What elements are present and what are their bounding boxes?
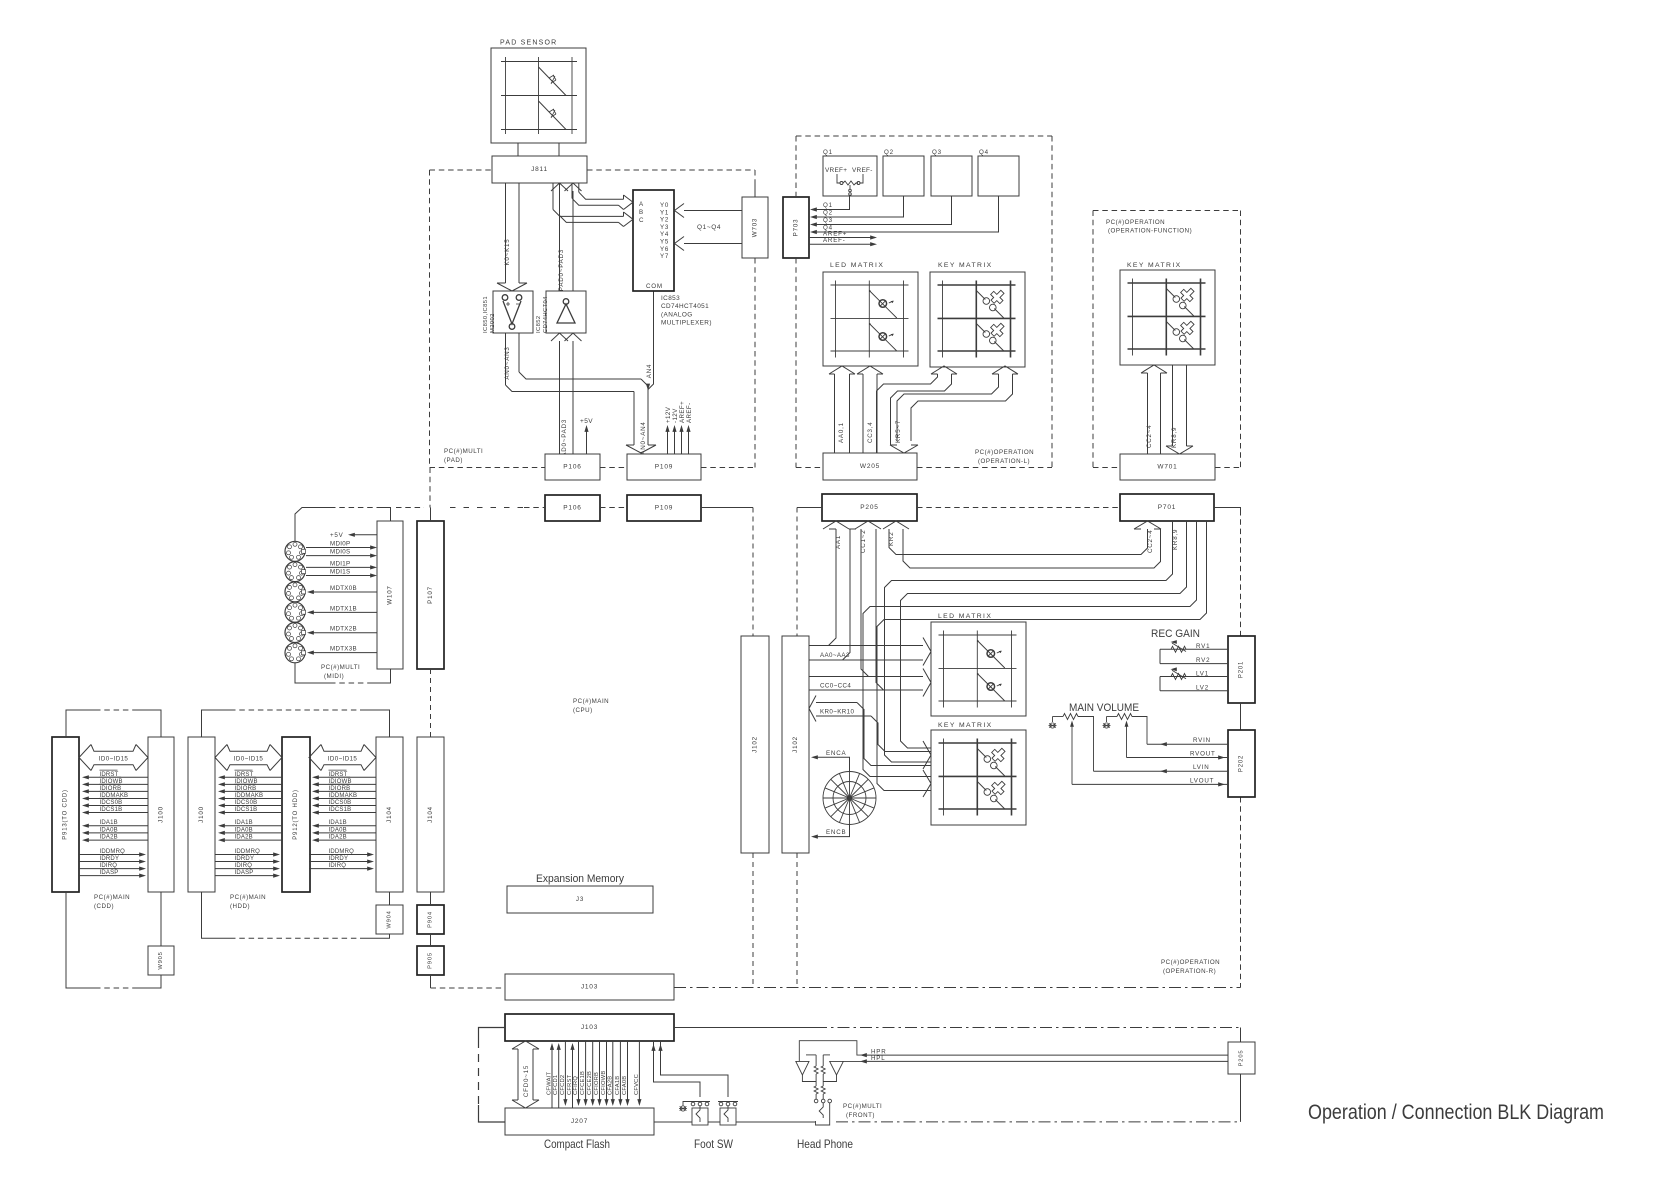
connector W205 (823, 453, 917, 480)
connector W905 (148, 946, 174, 975)
bus J811 to IC853 lower (553, 183, 633, 227)
wire IDRST CDD (85, 776, 148, 778)
svg-text:IDA1B: IDA1B (100, 820, 118, 826)
svg-text:IDDMRQ: IDDMRQ (235, 849, 261, 855)
connector P205 front (1228, 1042, 1255, 1074)
foot switch 1 (690, 1102, 710, 1126)
svg-text:Foot SW: Foot SW (694, 1137, 734, 1151)
bus AN0~AN3 (IC850 down, elbow right) (506, 333, 642, 392)
pot LV zigzag + wiper (1171, 670, 1186, 679)
bus K0~K15 (497, 183, 527, 291)
svg-text:MDTX0B: MDTX0B (330, 585, 357, 592)
svg-text:CC2~4: CC2~4 (1146, 425, 1153, 448)
main dashed line y=507 P107 to P106 row2 (450, 507, 524, 509)
pot LV bracket (1160, 677, 1228, 691)
svg-text:P106: P106 (563, 505, 581, 512)
connector W701 (1120, 454, 1215, 480)
svg-text:PAD0~PAD3: PAD0~PAD3 (558, 249, 565, 291)
connector J104 a (376, 737, 403, 892)
svg-text:REC GAIN: REC GAIN (1151, 628, 1200, 640)
connector P703 (783, 197, 809, 258)
region border PAD bottom edge (430, 467, 546, 469)
svg-text:P913(TO CDD): P913(TO CDD) (63, 789, 69, 840)
wire IDDMRQ HDD-right (309, 854, 370, 856)
svg-text:A: A (639, 201, 644, 208)
svg-text:VREF+: VREF+ (825, 167, 847, 174)
region border OPERATION-L left upper (795, 136, 797, 197)
svg-text:AA0,1: AA0,1 (838, 422, 845, 443)
svg-text:MDI0P: MDI0P (330, 541, 350, 548)
svg-text:+12V: +12V (665, 406, 672, 423)
bus Q1~Q4 IC853 Y side to W703 (675, 204, 743, 251)
svg-text:W107: W107 (387, 585, 394, 604)
svg-text:CFCD2: CFCD2 (560, 1075, 566, 1095)
bus ID0~ID15 HDD-right (309, 745, 376, 771)
svg-text:KR8,9: KR8,9 (1172, 529, 1179, 550)
svg-text:W701: W701 (1157, 464, 1177, 471)
main dashed line y=507 between row2 boxes (600, 507, 627, 509)
wire CFA1B (619, 1041, 621, 1104)
svg-text:AREF+: AREF+ (679, 401, 686, 423)
connector P106 row2 (545, 495, 600, 521)
svg-text:CC1~2: CC1~2 (860, 530, 867, 553)
region border PC(#)MULTI(PAD) top-left dash (430, 169, 493, 171)
arrow CC2~4 into P701 bottom (1134, 521, 1161, 529)
svg-text:IDIRQ: IDIRQ (100, 863, 118, 869)
wire pad-sensor stem right (558, 143, 560, 156)
wire IDRDY CDD (79, 861, 142, 863)
wire IDA0B HDD-left (221, 832, 282, 834)
main dashed line y=507 left of P106 row2 (524, 507, 545, 509)
MIDI DIN connector 5 (285, 623, 306, 643)
svg-text:PC(#)MAIN: PC(#)MAIN (573, 698, 609, 705)
wire AREF- (809, 243, 874, 245)
connector J100 a (148, 737, 174, 892)
svg-text:(OPERATION-L): (OPERATION-L) (978, 458, 1030, 465)
bracket bottom HDD (202, 892, 390, 938)
svg-text:IDA0B: IDA0B (100, 827, 118, 833)
wire MDI1P (306, 566, 373, 568)
KEY matrix function box (1120, 270, 1215, 365)
connector P109 row2 (627, 495, 701, 521)
wire J104b to P904 (430, 892, 432, 905)
region border OPERATION-FUNCTION bottom left (1093, 467, 1120, 469)
dashed P905 to J103 (431, 987, 506, 989)
svg-text:AREF-: AREF- (686, 402, 693, 423)
MIDI DIN connector 6 (285, 643, 306, 663)
svg-text:MDI1P: MDI1P (330, 560, 350, 567)
connector W904 (376, 905, 403, 934)
wire HPR (862, 1054, 1228, 1056)
svg-text:RVIN: RVIN (1193, 737, 1211, 744)
svg-text:LVIN: LVIN (1193, 764, 1210, 771)
svg-text:Compact Flash: Compact Flash (544, 1137, 610, 1151)
svg-text:LED MATRIX: LED MATRIX (938, 613, 992, 620)
connector P205 (822, 494, 917, 521)
svg-text:CC2~4: CC2~4 (1147, 530, 1154, 553)
svg-text:P109: P109 (655, 464, 673, 471)
wire IDA1B HDD-left (221, 825, 282, 827)
svg-text:CFWAIT: CFWAIT (547, 1072, 553, 1095)
bus AA1 from P205 down (823, 521, 856, 660)
svg-text:Y6: Y6 (660, 246, 669, 253)
bus PAD0~PAD3 upper (J811 to IC852) (551, 183, 582, 291)
wire IDCS1B HDD-right (315, 812, 376, 814)
wire IDIOWB HDD-left (221, 783, 282, 785)
svg-text:CFA2B: CFA2B (607, 1076, 613, 1095)
bus KR5~7 KEY matrix to W205 (Z elbow a) (877, 366, 958, 453)
wire IDDMRQ CDD (79, 854, 142, 856)
wire IDIORB CDD (85, 790, 148, 792)
connector P701 (1120, 494, 1214, 521)
svg-text:KR2: KR2 (888, 532, 895, 546)
dashed below J102a (752, 853, 754, 988)
connector W703 (742, 197, 768, 258)
svg-text:IDA0B: IDA0B (235, 827, 253, 833)
svg-text:CC0~CC4: CC0~CC4 (820, 683, 851, 690)
svg-text:M2002: M2002 (490, 313, 496, 333)
svg-text:W905: W905 (158, 951, 164, 969)
svg-text:P109: P109 (655, 505, 673, 512)
bus KR0~KR10 into J102 (809, 696, 931, 766)
svg-text:PC(#)MULTI: PC(#)MULTI (321, 664, 360, 671)
rail dash-dot lower FRONT (836, 1121, 1241, 1123)
wire CFIRQ (578, 1041, 580, 1104)
svg-text:J104: J104 (427, 806, 434, 823)
svg-text:W904: W904 (387, 910, 393, 928)
bus KR5~7 KEY matrix to W205 (Z elbow b) (897, 366, 1018, 441)
wire IDIRQ HDD-right (309, 868, 370, 870)
svg-text:IDA2B: IDA2B (329, 835, 347, 841)
dashed P205 to P701 (917, 507, 1120, 509)
MIDI DIN connector 3 (285, 582, 306, 602)
bus KR8,9 KEY matrix func to W701 (1166, 365, 1193, 454)
connector P905 (417, 946, 444, 975)
svg-text:RVOUT: RVOUT (1190, 751, 1216, 758)
svg-text:J104: J104 (386, 806, 393, 823)
svg-text:W703: W703 (752, 218, 759, 237)
pot RV zigzag + wiper (1171, 643, 1186, 652)
wire IDIORB HDD-right (315, 790, 376, 792)
svg-text:Q3: Q3 (823, 217, 833, 224)
svg-text:Y4: Y4 (660, 231, 669, 238)
svg-text:P701: P701 (1158, 504, 1176, 511)
svg-text:Y5: Y5 (660, 239, 669, 246)
svg-text:PC(#)MAIN: PC(#)MAIN (94, 894, 130, 901)
svg-text:CFCE2B: CFCE2B (587, 1071, 593, 1095)
svg-text:IDA0B: IDA0B (329, 827, 347, 833)
connector J207 (505, 1108, 654, 1135)
svg-text:J100: J100 (198, 806, 205, 823)
wire MDTX3B (310, 652, 377, 654)
svg-text:(OPERATION-R): (OPERATION-R) (1163, 968, 1216, 975)
wire IDA2B HDD-left (221, 839, 282, 841)
svg-text:MDTX2B: MDTX2B (330, 626, 357, 633)
svg-text:IDCS1B: IDCS1B (329, 807, 352, 813)
wire Q2 to P703 (814, 196, 904, 217)
wire IDCS0B HDD-left (221, 805, 282, 807)
svg-text:IDIRQ: IDIRQ (235, 863, 253, 869)
svg-text:J103: J103 (581, 1024, 598, 1031)
connector P912 (282, 737, 310, 892)
region border OPERATION-FUNCTION top (1093, 210, 1241, 212)
svg-text:AN0~AN3: AN0~AN3 (504, 346, 511, 379)
wire Q4 to P703 (814, 196, 999, 232)
LED symbols (977, 640, 1005, 668)
svg-text:MDI1S: MDI1S (330, 569, 350, 576)
svg-text:PC(#)MULTI: PC(#)MULTI (444, 448, 483, 455)
svg-text:-12V: -12V (672, 408, 679, 423)
svg-text:KEY MATRIX: KEY MATRIX (938, 262, 993, 269)
wire IDIRQ HDD-left (215, 868, 276, 870)
svg-text:PC(#)OPERATION: PC(#)OPERATION (1106, 219, 1165, 226)
svg-text:Q2: Q2 (884, 149, 894, 156)
region border OPERATION-FUNCTION bottom right (1215, 467, 1241, 469)
main dashed line y=507 P109 to P205 (701, 507, 753, 509)
bus J811 to IC853 upper (572, 183, 633, 210)
svg-text:P912(TO HDD): P912(TO HDD) (293, 789, 299, 840)
wire HPL (862, 1060, 1228, 1062)
svg-text:CFA1B: CFA1B (615, 1076, 621, 1095)
connector J104 b (417, 737, 444, 892)
wire MDTX0B (310, 591, 377, 593)
wire IDIOWB CDD (85, 783, 148, 785)
connector J811 (492, 156, 587, 183)
svg-text:LED MATRIX: LED MATRIX (830, 262, 884, 269)
wire CFVCC (638, 1041, 640, 1104)
main dashed line y=507 to P205 (797, 507, 822, 509)
wire CFA0B (627, 1041, 629, 1104)
region border OPERATION-L top (796, 135, 1052, 137)
svg-text:IDA2B: IDA2B (100, 835, 118, 841)
wire CFRST (572, 1046, 574, 1108)
svg-text:P202: P202 (1239, 755, 1245, 772)
svg-text:P205: P205 (1239, 1050, 1245, 1067)
wire IDCS1B CDD (85, 812, 148, 814)
wire MDTX2B (310, 632, 377, 634)
IC IC850/IC851 M2002 (493, 291, 533, 333)
svg-text:KEY MATRIX: KEY MATRIX (1127, 262, 1182, 269)
region border OPERATION-L right (1051, 136, 1053, 468)
wire IDDMAKB CDD (85, 797, 148, 799)
svg-text:J207: J207 (571, 1118, 588, 1125)
svg-text:MAIN VOLUME: MAIN VOLUME (1069, 702, 1139, 714)
rail J103b right solid (674, 1027, 815, 1029)
IC852 inverter symbol (557, 299, 575, 323)
wire CFCD1 (558, 1046, 560, 1108)
key switch symbols (976, 287, 1007, 318)
wire LVOUT (1072, 783, 1228, 785)
connector P913 (52, 737, 79, 892)
wire IDA1B CDD (85, 825, 148, 827)
bus PAD0~PAD3 lower (IC852 to P106) (551, 333, 582, 454)
svg-text:CD74HCT4051: CD74HCT4051 (661, 303, 709, 310)
wire P701 right corner to P201 (1214, 508, 1241, 511)
wire MDI0P (306, 547, 373, 549)
bus ID0~ID15 CDD (79, 745, 148, 771)
svg-text:LV1: LV1 (1196, 671, 1209, 678)
LED matrix 1 box (823, 272, 918, 366)
svg-text:IDA2B: IDA2B (235, 835, 253, 841)
svg-text:KR8,9: KR8,9 (1171, 427, 1178, 448)
LED matrix 2 box (931, 622, 1026, 716)
bus band2 KR8,9 left line (885, 521, 1187, 762)
arrow into KEY matrix 2 upper (923, 741, 931, 769)
svg-text:P703: P703 (793, 219, 800, 237)
wire IDRST HDD-left (221, 776, 282, 778)
region border PAD bottom between P106/P109 (600, 467, 627, 469)
wire IDDMAKB HDD-left (221, 797, 282, 799)
bus CC1~2 from P205 down (855, 521, 884, 690)
key switch symbols (977, 745, 1008, 776)
svg-text:IDCS1B: IDCS1B (235, 807, 258, 813)
svg-text:Operation / Connection BLK Dia: Operation / Connection BLK Diagram (1308, 1101, 1604, 1124)
svg-text:IDRDY: IDRDY (100, 856, 120, 862)
bus AA0~AA3 J102 to LED matrix 2 (809, 638, 931, 666)
wire IDCS1B HDD-left (221, 812, 282, 814)
bus KR2 from P205 down elbow right (883, 521, 1161, 568)
svg-text:(MIDI): (MIDI) (324, 673, 344, 680)
svg-text:(ANALOG: (ANALOG (661, 311, 693, 318)
svg-text:CFVCC: CFVCC (634, 1074, 640, 1095)
IC IC853 CD74HCT4051 analog multiplexer (633, 190, 674, 291)
wire RVOUT (1127, 757, 1229, 759)
connector P904 (417, 905, 444, 934)
svg-text:CD74HCT04: CD74HCT04 (543, 296, 549, 333)
wire MDTX1B (310, 611, 377, 613)
IC IC852 CD74HCT04 (546, 291, 586, 333)
svg-text:IDCS1B: IDCS1B (100, 807, 123, 813)
svg-text:MDTX1B: MDTX1B (330, 605, 357, 612)
pad-sensor diode D1 (539, 67, 567, 96)
wire ENCA (815, 757, 850, 771)
bracket top CDD (66, 710, 161, 737)
wire LVIN (1094, 770, 1229, 772)
main volume pot R (1107, 714, 1148, 758)
svg-text:CFIRQ: CFIRQ (573, 1076, 579, 1095)
svg-text:CFIORB: CFIORB (594, 1072, 600, 1095)
svg-text:CC3,4: CC3,4 (867, 421, 874, 443)
svg-text:(CPU): (CPU) (573, 707, 593, 714)
connector P106 row1 (545, 454, 600, 480)
dashed vertical x=1240.5 below P201/P202 (1240, 797, 1242, 988)
MIDI DIN connector 1 (285, 541, 306, 561)
svg-text:C: C (639, 217, 644, 224)
wire +5V arrow at P106 (586, 428, 588, 454)
wire W703 top stub (754, 183, 756, 197)
svg-text:Q1: Q1 (823, 149, 833, 156)
bus AN0~AN4 (down into P109) (626, 379, 656, 453)
wire drop x=753 to J102a (752, 508, 754, 637)
svg-text:ID0~ID15: ID0~ID15 (234, 756, 264, 763)
MIDI DIN connector 2 (285, 562, 306, 582)
wire RVIN (1147, 743, 1228, 745)
svg-text:Y1: Y1 (660, 209, 669, 216)
svg-text:AA1: AA1 (835, 535, 842, 549)
foot switch 2 (718, 1102, 738, 1126)
dashed vertical x=430 PAD-to-P107 (429, 468, 431, 508)
pad-sensor diode D2 (539, 101, 567, 130)
svg-text:PC(#)MAIN: PC(#)MAIN (230, 894, 266, 901)
svg-text:MDTX3B: MDTX3B (330, 646, 357, 653)
Q1 internal circuit (837, 174, 863, 195)
svg-text:AA0~AA3: AA0~AA3 (820, 652, 850, 659)
region border OPERATION-FUNCTION left (1092, 211, 1094, 468)
svg-text:Q3: Q3 (932, 149, 942, 156)
pad-sensor grid (501, 57, 577, 134)
svg-text:Y2: Y2 (660, 217, 669, 224)
bus AA0,1 LED matrix to W205 (829, 366, 855, 453)
connector P107 (417, 521, 444, 669)
key switch symbols (1166, 285, 1197, 316)
wire MDI1S (306, 575, 373, 577)
svg-text:ENCA: ENCA (826, 750, 846, 757)
connector P202 (1228, 730, 1255, 797)
svg-text:IDA1B: IDA1B (235, 820, 253, 826)
transistor pack Q2 (883, 156, 924, 196)
svg-text:MDI0S: MDI0S (330, 549, 350, 556)
region border OPERATION-L bottom left (796, 467, 823, 469)
svg-text:IDASP: IDASP (235, 870, 254, 876)
connector P201 (1228, 636, 1255, 703)
arrow into KEY matrix 2 lower (923, 770, 931, 797)
wire IDRST HDD-right (315, 776, 376, 778)
wire CFIOWB (606, 1041, 608, 1104)
svg-text:(HDD): (HDD) (230, 903, 250, 910)
svg-text:COM: COM (646, 283, 663, 290)
wire IDCS0B CDD (85, 805, 148, 807)
rotary encoder wheel (823, 772, 876, 825)
svg-text:IDDMRQ: IDDMRQ (100, 849, 126, 855)
connector J103 b (505, 1014, 674, 1041)
wire CFWAIT (551, 1046, 553, 1108)
wire P201 to P202 (1240, 703, 1242, 730)
wire ENCB (815, 825, 850, 837)
wire P107 bottom dashed to J104 (430, 669, 432, 737)
wire IDRDY HDD-right (309, 861, 370, 863)
region border OPERATION-FUNCTION right (1240, 211, 1242, 468)
bus CC0~CC4 J102 to LED matrix 2 (809, 669, 931, 697)
svg-text:KR5~7: KR5~7 (895, 420, 902, 443)
connector P109 row1 (627, 454, 701, 480)
svg-text:K0~K15: K0~K15 (504, 239, 511, 266)
bus CFD0~15 double arrow (512, 1041, 539, 1108)
wire IDIORB HDD-left (221, 790, 282, 792)
svg-text:VREF-: VREF- (852, 167, 873, 174)
svg-text:RV1: RV1 (1196, 643, 1210, 650)
svg-text:Y0: Y0 (660, 202, 669, 209)
region border MIDI dashed box (295, 508, 391, 684)
svg-text:PC(#)MULTI: PC(#)MULTI (843, 1103, 882, 1110)
svg-text:CFCE1B: CFCE1B (580, 1071, 586, 1095)
svg-text:Y7: Y7 (660, 253, 669, 260)
svg-text:PC(#)OPERATION: PC(#)OPERATION (1161, 959, 1220, 966)
KEY matrix 2 box (931, 730, 1026, 825)
svg-text:AN4: AN4 (646, 364, 653, 378)
wire IDA2B HDD-right (315, 839, 376, 841)
Foot SW ground wire (683, 1102, 693, 1107)
wire IDA0B HDD-right (315, 832, 376, 834)
svg-text:J102: J102 (752, 736, 759, 753)
bracket top HDD (202, 710, 390, 737)
svg-text:PAD SENSOR: PAD SENSOR (500, 40, 557, 47)
svg-text:PC(#)OPERATION: PC(#)OPERATION (975, 449, 1034, 456)
svg-text:AREF-: AREF- (823, 237, 846, 244)
region border PAD right edge lower (754, 258, 756, 468)
svg-text:(PAD): (PAD) (444, 457, 463, 464)
region border PAD left edge (429, 170, 431, 468)
region border PAD bottom right of P109 (701, 467, 755, 469)
